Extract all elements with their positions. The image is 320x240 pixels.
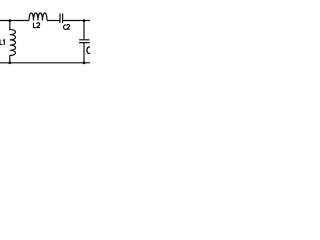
node B top-right junction [83, 19, 86, 22]
capacitor C3 [79, 40, 90, 43]
wire top-left segment [0, 20, 29, 22]
label C2 [63, 25, 69, 30]
wire C3 bottom lead [83, 43, 85, 63]
inductor L1 [10, 21, 16, 63]
wire C3 top lead [83, 21, 85, 40]
wire bottom rail [0, 62, 90, 64]
node C bottom-left junction [8, 61, 11, 64]
wire L2 to C2 [47, 20, 60, 22]
wire C2 to node B [63, 20, 90, 22]
node A top-left junction [8, 19, 11, 22]
node D bottom-right junction [83, 61, 86, 64]
label C3 [87, 47, 94, 54]
capacitor C2 [60, 14, 63, 24]
label L2 [33, 23, 40, 28]
label L1 [0, 40, 4, 45]
inductor L2 [29, 13, 47, 21]
